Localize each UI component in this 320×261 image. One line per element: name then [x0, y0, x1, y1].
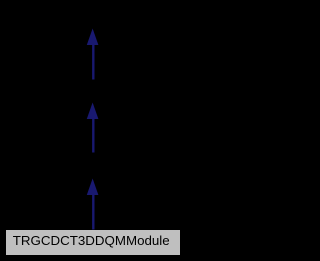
- arrow 1 (top): head: [87, 29, 99, 46]
- arrow 2 (middle): head: [87, 103, 99, 120]
- arrow 1: stem: [92, 45, 94, 80]
- inheritance arrows (midnightblue), drawn bottom box up: [0, 0, 185, 261]
- arrow 3: stem: [92, 195, 94, 230]
- arrow 2: stem: [92, 119, 94, 153]
- arrow 3 (bottom): head: [87, 179, 99, 196]
- node box TRGCDCT3DDQMModule (current class, grey fill): [6, 230, 180, 255]
- label TRGCDCT3DDQMModule: [13, 234, 170, 247]
